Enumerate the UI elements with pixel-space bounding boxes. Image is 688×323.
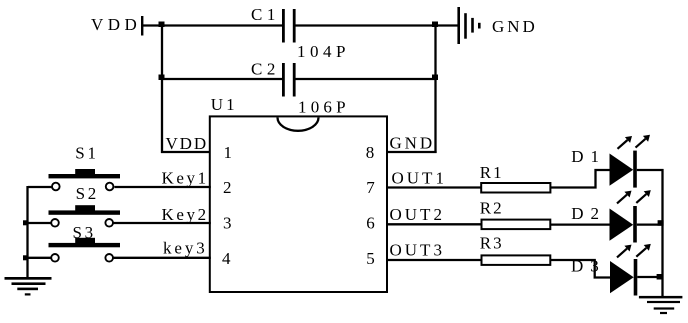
LED D2 [610, 190, 651, 242]
wire D3 cathode to rail [637, 276, 663, 278]
junction dot node GND-rail top [432, 22, 438, 28]
wire R2 to D2 [550, 223, 610, 225]
wire pin5 to R3 [386, 259, 482, 261]
svg-text:VDD: VDD [91, 15, 141, 34]
junction dot D2 rail [658, 220, 664, 226]
wire R3 to D3 jog [550, 260, 610, 278]
wire pin7 to R1 [386, 186, 482, 188]
svg-text:D2: D2 [571, 204, 606, 223]
svg-text:7: 7 [366, 178, 378, 197]
svg-text:4: 4 [222, 249, 234, 268]
svg-text:D1: D1 [571, 147, 606, 166]
wire S3 to pin4 [113, 257, 211, 259]
svg-text:key3: key3 [163, 239, 208, 258]
wire left ground rail [26, 186, 28, 278]
wire pin8 horizontal [386, 151, 437, 153]
wire S1 left [28, 186, 52, 188]
junction dot D3 rail [657, 274, 663, 280]
LED D3 [610, 244, 651, 296]
wire S1 to pin2 [114, 186, 210, 188]
svg-text:C1: C1 [251, 5, 280, 24]
svg-text:3: 3 [223, 214, 235, 233]
switch S1 [49, 169, 121, 190]
wire C2 left lead [162, 78, 283, 80]
wire pin1 horizontal [161, 151, 211, 153]
wire S2 left [28, 222, 51, 224]
svg-text:OUT1: OUT1 [392, 169, 447, 188]
svg-text:VDD: VDD [166, 134, 209, 153]
svg-text:C2: C2 [251, 60, 280, 79]
svg-text:D3: D3 [571, 257, 606, 276]
IC U1 body [210, 116, 387, 292]
IC notch [278, 118, 319, 131]
svg-text:U1: U1 [211, 95, 238, 114]
wire left VDD rail vertical [161, 26, 163, 154]
capacitor C2 [282, 63, 296, 97]
wire pin6 to R2 [386, 223, 482, 225]
svg-text:GND: GND [492, 17, 538, 36]
switch S3 [49, 238, 121, 262]
svg-text:R3: R3 [480, 234, 504, 253]
wire C1 right lead [295, 24, 458, 26]
wire D1 cathode to rail [637, 169, 664, 171]
junction dot node VDD-rail top [159, 22, 165, 28]
wire C2 right lead [295, 78, 436, 80]
ground G2 bottom left [5, 277, 52, 296]
LED D1 [610, 135, 651, 188]
svg-text:1: 1 [224, 143, 236, 162]
resistor R1 [481, 183, 550, 193]
svg-text:GND: GND [390, 133, 436, 152]
svg-text:8: 8 [366, 143, 378, 162]
svg-text:Key2: Key2 [162, 205, 209, 224]
svg-text:S2: S2 [76, 184, 99, 203]
junction dot S3 left [23, 255, 29, 260]
svg-text:106P: 106P [298, 98, 350, 117]
resistor R2 [482, 220, 551, 230]
svg-text:Key1: Key1 [162, 169, 209, 188]
svg-text:S1: S1 [75, 144, 98, 163]
svg-text:6: 6 [366, 214, 378, 233]
svg-text:R2: R2 [480, 199, 504, 218]
switch S2 [49, 205, 121, 226]
svg-text:OUT2: OUT2 [390, 205, 445, 224]
wire D2 cathode to rail [637, 223, 664, 225]
svg-text:R1: R1 [480, 163, 504, 182]
ground G3 bottom right [639, 296, 683, 314]
junction dot C2 left branch [159, 75, 165, 81]
wire S2 to pin3 [113, 222, 211, 224]
wire VDD terminal to C1 [142, 24, 283, 26]
svg-text:104P: 104P [297, 42, 350, 61]
svg-text:2: 2 [223, 178, 235, 197]
wire right cathode rail [661, 169, 663, 297]
capacitor C1 [282, 9, 296, 43]
resistor R3 [482, 255, 551, 265]
power terminal VDD bar [141, 16, 143, 36]
svg-text:OUT3: OUT3 [390, 241, 445, 260]
ground G1 top right [457, 7, 480, 44]
wire S3 left [28, 257, 51, 259]
junction dot S2 left [23, 220, 29, 225]
junction dot C2 right branch [432, 75, 438, 81]
wire right GND rail vertical [434, 26, 436, 154]
wire R1 to D1 jog [550, 170, 610, 188]
svg-text:5: 5 [366, 249, 378, 268]
